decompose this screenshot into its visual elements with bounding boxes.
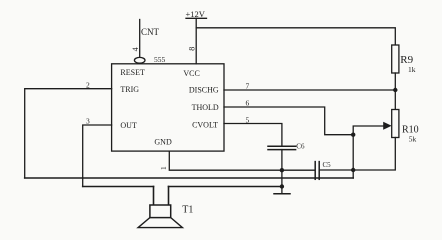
wire OUT to speaker — [83, 186, 154, 188]
speaker T1 stubs — [153, 187, 155, 206]
wire wiper arrow line — [353, 126, 384, 135]
+12V power bar — [186, 17, 207, 19]
wire pin6 THOLD — [224, 107, 353, 135]
svg-text:C5: C5 — [323, 161, 332, 169]
resistor R9 body — [392, 45, 399, 73]
wire pin7 DISCHG — [224, 89, 395, 91]
svg-text:1: 1 — [159, 166, 168, 170]
wire speaker right terminal to ground — [169, 186, 282, 188]
svg-text:555: 555 — [154, 55, 166, 64]
wire pin2 TRIG left — [25, 89, 112, 178]
svg-text:5k: 5k — [409, 135, 417, 144]
svg-text:8: 8 — [188, 47, 197, 51]
connector ellipse on RESET pin 4 — [134, 57, 145, 63]
junction dots — [280, 88, 398, 189]
wire R9 bottom to junction — [394, 73, 396, 110]
svg-text:CNT: CNT — [141, 27, 160, 37]
svg-text:2: 2 — [86, 81, 90, 90]
svg-text:1k: 1k — [408, 65, 416, 74]
wire VCC pin 8 vertical — [195, 18, 197, 64]
svg-text:6: 6 — [246, 99, 250, 108]
resistor R10 body (potentiometer) — [392, 110, 399, 138]
speaker T1 cone — [138, 218, 182, 228]
svg-text:5: 5 — [246, 116, 250, 125]
svg-text:OUT: OUT — [120, 121, 137, 130]
node speaker/ground junction — [280, 184, 284, 188]
op-amp U1: 555 IC box — [112, 64, 224, 151]
svg-text:THOLD: THOLD — [192, 103, 219, 112]
svg-text:T1: T1 — [182, 205, 193, 216]
wire C6 bottom vertical — [281, 150, 283, 187]
node C5/R10 junction — [351, 168, 355, 172]
svg-text:VCC: VCC — [183, 69, 199, 78]
svg-text:DISCHG: DISCHG — [189, 86, 219, 95]
svg-text:C6: C6 — [296, 143, 305, 151]
capacitor C5 plates — [314, 162, 316, 180]
svg-text:+12V: +12V — [186, 9, 206, 19]
svg-text:4: 4 — [131, 47, 140, 51]
wire junction vertical — [352, 135, 354, 178]
wire pin3 OUT left — [83, 125, 112, 187]
node CNT stub wire — [139, 20, 141, 58]
svg-text:7: 7 — [246, 82, 250, 91]
svg-text:3: 3 — [86, 117, 90, 126]
wire +12V rail to R9 — [196, 28, 395, 45]
speaker T1 body — [150, 205, 171, 218]
wire pin1 GND down and right — [169, 151, 314, 170]
node C6/GND junction — [280, 168, 284, 172]
wire TRIG bottom line — [25, 177, 354, 179]
wiper arrowhead — [383, 122, 391, 130]
node R9/R10/pin7 junction — [393, 88, 397, 92]
svg-text:TRIG: TRIG — [120, 85, 139, 94]
node pin6/wiper junction — [351, 133, 355, 137]
wire R10 bottom — [320, 138, 396, 171]
svg-text:GND: GND — [154, 138, 172, 147]
svg-text:RESET: RESET — [120, 68, 145, 77]
svg-text:CVOLT: CVOLT — [192, 121, 218, 130]
capacitor C6 plates — [268, 145, 296, 147]
wire pin5 CVOLT to C6 — [224, 124, 282, 147]
ground symbol — [281, 187, 283, 194]
